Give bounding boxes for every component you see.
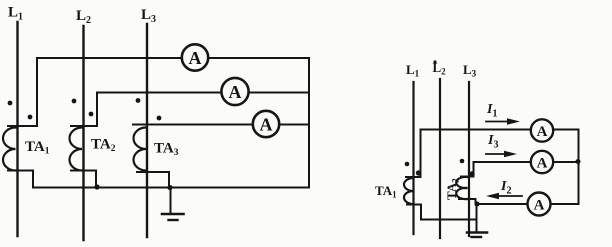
arrow I1: [486, 118, 520, 125]
wire TA2 (right) secondary bottom lead: [459, 199, 476, 204]
polarity dot TA2 (right) primary: [460, 159, 465, 164]
wire TA1 (right) secondary bottom lead: [407, 205, 421, 220]
polarity dot TA2 primary: [72, 99, 77, 104]
wire L2 phase line: [82, 26, 84, 240]
svg-text:A: A: [537, 124, 548, 140]
svg-text:A: A: [537, 156, 548, 172]
svg-text:A: A: [229, 82, 242, 102]
wire right bus vertical (right circuit): [578, 130, 580, 205]
wire row2 (I3) to bus: [474, 161, 579, 163]
wire L1 phase line: [16, 22, 18, 236]
wire L3 phase line: [146, 24, 148, 237]
ammeter PA1: [182, 44, 208, 70]
wire riser common node to bottom bus: [476, 204, 478, 220]
ground right circuit: [467, 220, 487, 238]
ammeter PA1 (right): [531, 119, 553, 141]
wire TA1 (right) secondary top lead: [406, 130, 421, 178]
polarity dot TA1 primary: [8, 101, 13, 106]
svg-text:A: A: [534, 198, 545, 214]
winding TA2 (right) secondary: [456, 177, 467, 199]
wire TA1 secondary bottom lead: [8, 171, 33, 188]
winding TA1 (right) secondary: [404, 178, 413, 204]
ammeter PA2: [221, 78, 248, 105]
winding TA2 secondary: [70, 128, 83, 171]
wire row3 TA3 secondary to bus: [133, 124, 309, 126]
wire row3 (I2) common return: [477, 203, 579, 205]
ammeter PA3 (right): [528, 193, 551, 216]
wire row1 (I1) to bus: [421, 129, 579, 131]
polarity dot TA3 primary: [136, 98, 141, 103]
junction common return node: [474, 201, 479, 206]
junction TA2 on bottom bus: [94, 184, 99, 189]
wire L2 phase line (right): [439, 79, 441, 238]
wire row2 TA2 secondary to bus: [97, 92, 309, 94]
polarity dot TA1 (right) primary: [405, 162, 410, 167]
wire bottom bus (right circuit): [421, 219, 477, 221]
wire TA2 (right) secondary top lead: [461, 162, 474, 177]
polarity dot TA1 secondary: [28, 115, 33, 120]
wire L3 phase line (right): [468, 82, 470, 236]
svg-text:A: A: [189, 48, 202, 68]
svg-text:A: A: [260, 115, 273, 135]
wire right bus vertical: [308, 58, 310, 188]
winding TA3 secondary: [133, 128, 146, 171]
arrow I2 (reversed): [486, 193, 522, 200]
wire row1 TA1 secondary to bus: [37, 57, 309, 59]
ammeter PA2 (right): [531, 151, 553, 173]
wire bottom return bus: [33, 187, 309, 189]
junction row2 on bus: [576, 159, 581, 164]
wire TA1 secondary top lead: [8, 58, 37, 126]
polarity dot TA2 (right) secondary: [469, 171, 474, 176]
junction TA3 on bottom bus: [167, 185, 172, 190]
winding TA1 secondary: [3, 128, 16, 171]
wire TA3 secondary bottom lead: [137, 172, 169, 188]
polarity dot TA2 secondary: [89, 112, 94, 117]
wire TA2 secondary bottom lead: [71, 171, 96, 188]
dot speck above L2 (right): [433, 60, 436, 63]
arrow I3: [486, 151, 517, 158]
wire L1 phase line (right): [412, 82, 414, 234]
ammeter PA3: [253, 111, 279, 137]
wire TA2 secondary top lead: [71, 93, 97, 127]
polarity dot TA3 secondary: [157, 116, 162, 121]
ground left circuit: [162, 188, 184, 221]
polarity dot TA1 (right) secondary: [416, 170, 421, 175]
